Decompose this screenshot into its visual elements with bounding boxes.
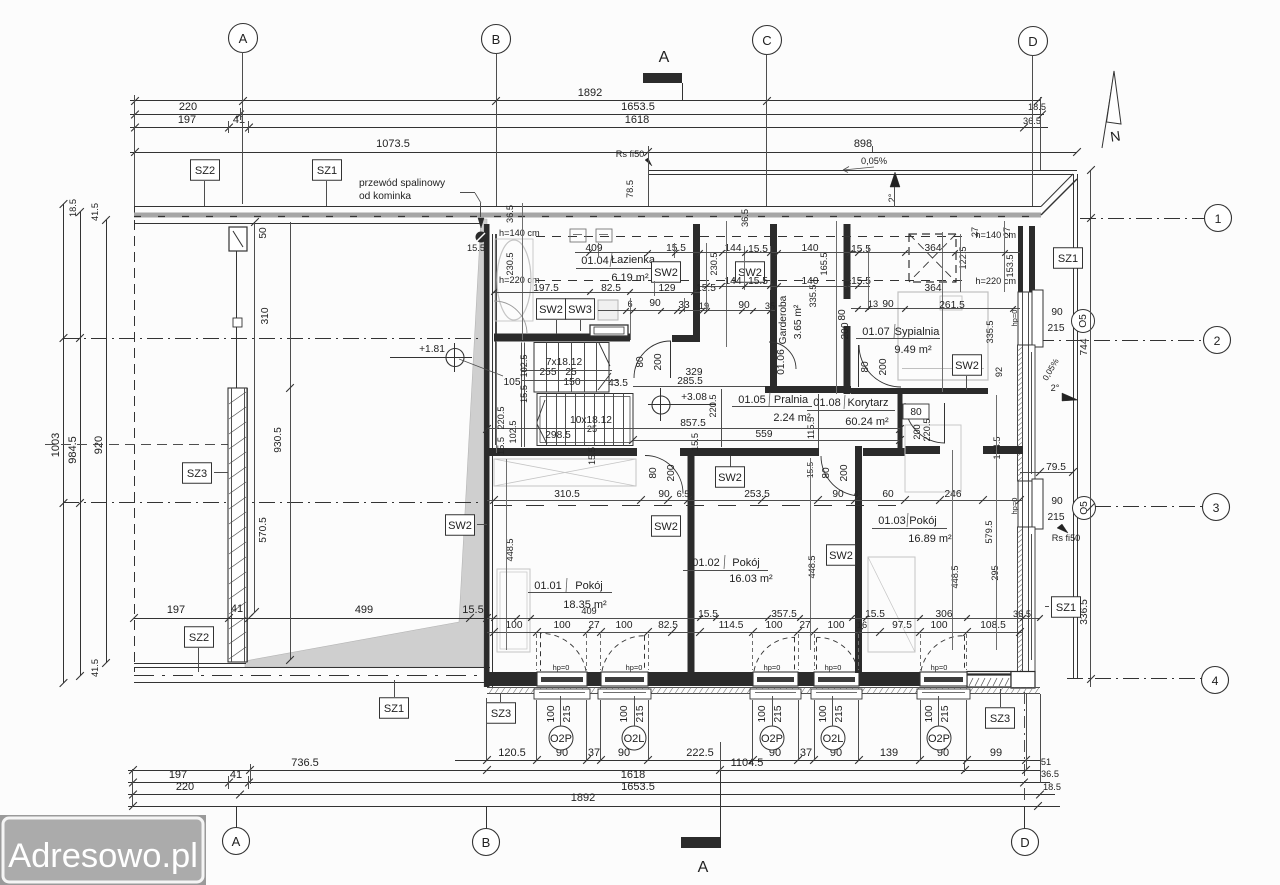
svg-text:27: 27	[588, 620, 600, 631]
svg-text:16: 16	[857, 620, 867, 630]
svg-text:O5: O5	[1078, 314, 1089, 328]
axis circle 4	[1202, 667, 1229, 694]
SW2 box sypialnia	[953, 355, 982, 376]
window jamb verticals	[536, 634, 538, 670]
svg-text:930.5: 930.5	[273, 427, 284, 453]
svg-text:80: 80	[635, 356, 646, 368]
wing mid dashed line	[45, 444, 230, 446]
svg-text:3: 3	[1213, 501, 1220, 515]
svg-text:16.89 m²: 16.89 m²	[908, 533, 952, 545]
SW2 box bathroom bottom	[537, 299, 566, 320]
svg-text:80: 80	[860, 361, 871, 373]
extension lines top band verticals	[522, 203, 524, 340]
svg-text:O2L: O2L	[823, 733, 844, 745]
dim line row1 top band	[575, 252, 1020, 254]
svg-text:+3.08: +3.08	[681, 392, 707, 403]
svg-text:Rs fi50: Rs fi50	[1052, 533, 1081, 543]
right wall window O5 upper	[1018, 292, 1035, 345]
svg-text:A: A	[232, 834, 241, 849]
svg-text:SW2: SW2	[829, 550, 853, 562]
top dimension line 220 1653.5	[130, 114, 1044, 116]
svg-text:102.5: 102.5	[519, 355, 529, 378]
svg-text:90: 90	[1051, 307, 1063, 318]
svg-text:01.04: 01.04	[581, 255, 609, 267]
svg-text:41: 41	[233, 114, 245, 126]
svg-text:200: 200	[840, 322, 851, 339]
svg-text:255: 255	[540, 367, 557, 378]
svg-text:736.5: 736.5	[291, 757, 319, 769]
svg-text:60.24 m²: 60.24 m²	[845, 416, 889, 428]
svg-text:15.5: 15.5	[748, 276, 768, 287]
bathroom sink glyphs	[570, 229, 586, 242]
left wing top band	[134, 206, 1041, 208]
svg-text:108.5: 108.5	[980, 620, 1006, 631]
svg-text:220: 220	[179, 101, 197, 113]
svg-text:01.02: 01.02	[692, 557, 720, 569]
bathroom bathtub	[497, 240, 531, 320]
dim 220.5 by korytarz	[721, 389, 723, 447]
svg-text:Pokój: Pokój	[732, 557, 760, 569]
SZ1 box right mid	[1052, 597, 1081, 618]
svg-text:hp=0: hp=0	[626, 663, 643, 672]
svg-text:335.5: 335.5	[808, 285, 818, 308]
svg-text:1618: 1618	[625, 114, 649, 126]
O5 circle right lower	[1073, 497, 1096, 520]
svg-text:SZ1: SZ1	[317, 165, 337, 177]
svg-text:100: 100	[757, 705, 768, 722]
svg-text:570.5: 570.5	[258, 517, 269, 543]
svg-text:857.5: 857.5	[680, 418, 706, 429]
dashed window swing arcs	[540, 633, 586, 671]
svg-text:27: 27	[970, 227, 980, 237]
axis circle 3	[1203, 494, 1230, 521]
svg-text:2°: 2°	[1051, 383, 1060, 393]
svg-text:01.03: 01.03	[878, 515, 906, 527]
svg-text:01.05: 01.05	[738, 394, 766, 406]
svg-text:200: 200	[878, 358, 889, 375]
svg-text:144: 144	[725, 276, 742, 287]
svg-text:3.65 m²: 3.65 m²	[793, 304, 804, 339]
dim line y618 bottom rooms	[487, 618, 1040, 620]
SW2 box corridor	[716, 467, 745, 488]
dim line row2 top band	[494, 292, 700, 294]
svg-text:SW3: SW3	[568, 304, 592, 316]
svg-text:215: 215	[562, 705, 573, 722]
svg-text:499: 499	[355, 604, 373, 616]
garderoba left wall	[770, 224, 777, 390]
flue circle	[476, 232, 487, 243]
gray roof wedge left of building wall	[245, 219, 487, 667]
svg-text:43.5: 43.5	[608, 378, 628, 389]
right wall window O5 lower	[1018, 481, 1035, 527]
svg-text:295: 295	[990, 565, 1000, 580]
svg-text:1104.5: 1104.5	[731, 757, 764, 769]
svg-text:79.5: 79.5	[1046, 462, 1066, 473]
dim row 329 285.5	[633, 386, 765, 388]
top SZ2 box	[191, 160, 220, 181]
svg-text:230.5: 230.5	[709, 253, 719, 276]
svg-text:01.08: 01.08	[813, 397, 841, 409]
svg-text:220: 220	[176, 781, 194, 793]
svg-text:744: 744	[1079, 338, 1090, 355]
building right wall upper solid	[1018, 226, 1023, 292]
svg-text:90: 90	[649, 298, 661, 309]
SZ1 box wing bottom	[380, 698, 409, 719]
bottom wall corner block	[1011, 672, 1035, 689]
svg-text:1618: 1618	[621, 769, 645, 781]
svg-text:448.5: 448.5	[950, 566, 960, 589]
svg-text:261.5: 261.5	[939, 300, 965, 311]
SW2 box room 01.01 left	[446, 515, 475, 536]
svg-text:100: 100	[931, 620, 948, 631]
svg-text:2: 2	[1214, 334, 1221, 348]
wing wall thin middle	[236, 251, 238, 388]
svg-text:6.5: 6.5	[677, 489, 690, 499]
svg-text:215: 215	[635, 705, 646, 722]
svg-text:Garderoba: Garderoba	[778, 295, 789, 344]
svg-text:78.5: 78.5	[625, 180, 635, 198]
svg-text:197: 197	[178, 114, 196, 126]
svg-text:35: 35	[765, 301, 775, 311]
room 01.01 crossed box	[494, 459, 636, 486]
svg-text:Pokój: Pokój	[575, 580, 603, 592]
left dimension line 1003	[63, 204, 65, 683]
door arc sypialnia	[859, 345, 901, 387]
svg-text:36.5: 36.5	[505, 205, 515, 223]
garderoba right wall	[844, 224, 851, 299]
svg-text:hp=0: hp=0	[931, 663, 948, 672]
svg-text:Korytarz: Korytarz	[848, 397, 889, 409]
room 01.01/01.02 divider wall	[688, 453, 695, 673]
svg-text:984.5: 984.5	[67, 436, 79, 464]
svg-text:41.5: 41.5	[90, 203, 100, 221]
svg-text:579.5: 579.5	[984, 521, 994, 544]
svg-text:27: 27	[1002, 227, 1012, 237]
dim line 115.5 pralnia	[818, 394, 820, 448]
bottom windows O2	[537, 672, 587, 686]
svg-text:559: 559	[756, 429, 773, 440]
svg-text:220.5: 220.5	[708, 395, 718, 418]
svg-text:90: 90	[658, 489, 670, 500]
axis circle C top	[753, 26, 782, 55]
svg-text:37: 37	[588, 747, 600, 759]
axis extension lines vertical top	[134, 95, 136, 206]
svg-text:60: 60	[882, 489, 894, 500]
door arc corridor right	[905, 403, 945, 443]
bottom wall pier 99	[967, 672, 1011, 688]
garderoba and pralnia bottom walls	[765, 386, 851, 393]
svg-text:Adresowo.pl: Adresowo.pl	[8, 837, 198, 875]
svg-text:122.5: 122.5	[958, 247, 968, 270]
wing wall SZ3 hatched	[228, 388, 247, 662]
svg-text:80: 80	[648, 467, 659, 479]
svg-text:37: 37	[800, 747, 812, 759]
svg-text:1892: 1892	[571, 792, 595, 804]
svg-text:1073.5: 1073.5	[376, 138, 410, 150]
SW3 box bathroom bottom	[566, 299, 595, 320]
building top-right chamfer corner	[1041, 174, 1073, 207]
svg-text:215: 215	[940, 705, 951, 722]
axis circle 1	[1205, 205, 1232, 232]
door arc room 01.02	[821, 456, 861, 496]
bathroom right wall	[693, 224, 700, 341]
svg-text:Sypialnia: Sypialnia	[895, 326, 941, 338]
svg-text:200: 200	[653, 353, 664, 370]
dim row y627 and line	[487, 632, 1023, 634]
svg-text:przewód spalinowy: przewód spalinowy	[359, 178, 446, 189]
svg-text:15.5: 15.5	[748, 244, 768, 255]
svg-text:B: B	[482, 835, 491, 850]
svg-text:SZ3: SZ3	[491, 708, 511, 720]
axis circle A bottom	[223, 828, 250, 855]
axis circle A top	[229, 24, 258, 53]
svg-text:200: 200	[912, 424, 922, 439]
svg-text:C: C	[762, 33, 771, 48]
svg-text:409: 409	[581, 606, 596, 616]
bathroom radiator	[590, 325, 628, 336]
svg-text:102.5: 102.5	[508, 421, 518, 444]
svg-text:100: 100	[766, 620, 783, 631]
svg-text:SZ3: SZ3	[990, 713, 1010, 725]
building left wall	[484, 224, 486, 687]
svg-text:1653.5: 1653.5	[621, 101, 655, 113]
svg-text:220.5: 220.5	[922, 419, 932, 442]
dim line row3 top band	[598, 310, 775, 312]
svg-text:100: 100	[506, 620, 523, 631]
svg-text:O2P: O2P	[928, 733, 950, 745]
svg-text:120.5: 120.5	[498, 747, 526, 759]
svg-text:hp=0: hp=0	[764, 663, 781, 672]
level mark +3.08	[652, 396, 670, 414]
bottom dimension line 1892	[128, 806, 1060, 808]
svg-text:18.5: 18.5	[1043, 782, 1061, 792]
svg-text:1653.5: 1653.5	[621, 781, 655, 793]
SW2 box bathroom top	[652, 262, 681, 283]
svg-text:97.5: 97.5	[892, 620, 912, 631]
svg-text:A: A	[659, 49, 670, 66]
room dim vertical lines	[506, 459, 508, 650]
svg-text:15.5: 15.5	[587, 447, 597, 465]
axis circle B bottom	[473, 829, 500, 856]
svg-text:SW2: SW2	[654, 521, 678, 533]
svg-text:1892: 1892	[578, 87, 602, 99]
svg-text:215: 215	[1048, 323, 1065, 334]
svg-text:215: 215	[773, 705, 784, 722]
left dimension line 984.5	[80, 212, 82, 676]
svg-text:+1.81: +1.81	[419, 344, 445, 355]
corridor vertical stub wall	[898, 391, 903, 448]
svg-text:100: 100	[619, 705, 630, 722]
svg-text:41.5: 41.5	[90, 659, 100, 677]
left wing bottom band	[134, 663, 246, 665]
svg-text:hp=0: hp=0	[553, 663, 570, 672]
svg-text:41: 41	[230, 769, 242, 781]
top dimension line 1892	[130, 100, 1040, 102]
svg-text:SZ1: SZ1	[1058, 253, 1078, 265]
svg-text:O2L: O2L	[624, 733, 645, 745]
svg-text:99: 99	[990, 747, 1002, 759]
wing wall thin double line right	[244, 388, 246, 662]
right wall middle leaf hatched	[1018, 345, 1023, 481]
svg-text:18.5: 18.5	[68, 199, 78, 217]
svg-text:15.5: 15.5	[496, 437, 506, 455]
svg-text:SW2: SW2	[539, 304, 563, 316]
svg-text:O5: O5	[1079, 501, 1090, 515]
svg-text:SW2: SW2	[955, 360, 979, 372]
axis circle D top	[1019, 27, 1048, 56]
svg-text:90: 90	[832, 489, 844, 500]
svg-text:80: 80	[821, 467, 832, 479]
door arc room 01.01	[645, 456, 683, 494]
svg-text:92: 92	[994, 367, 1004, 377]
svg-text:2°: 2°	[887, 193, 897, 202]
sypialnia dim verticals	[942, 232, 944, 392]
svg-text:285.5: 285.5	[677, 376, 703, 387]
svg-text:15.5: 15.5	[462, 604, 483, 616]
svg-text:100: 100	[546, 705, 557, 722]
wing dimension 197 41 499 15.5 row	[134, 618, 487, 620]
svg-text:100: 100	[924, 705, 935, 722]
SZ1 box right top	[1054, 248, 1083, 269]
roof overhang right verticals	[1073, 174, 1075, 678]
window sill hatch band bottom	[487, 687, 1040, 689]
extension lines bottom verticals	[486, 698, 488, 760]
building bottom wall with windows	[487, 672, 537, 686]
svg-text:90: 90	[1051, 496, 1063, 507]
svg-text:hp=0: hp=0	[825, 663, 842, 672]
top SZ1 box	[313, 160, 342, 181]
svg-text:335.5: 335.5	[985, 321, 995, 344]
SW2 box room 01.02	[652, 516, 681, 537]
svg-text:153.5: 153.5	[1005, 255, 1015, 278]
svg-text:od kominka: od kominka	[359, 191, 411, 202]
stairs lower flight 10x18.12	[537, 394, 633, 446]
svg-text:4: 4	[853, 489, 858, 499]
svg-text:SZ1: SZ1	[384, 703, 404, 715]
room 01.02/01.03 divider wall	[855, 446, 862, 673]
svg-text:01.07: 01.07	[862, 326, 890, 338]
top dimension line 197 41 1618	[130, 127, 1048, 129]
main dim row y500	[487, 500, 1023, 502]
svg-text:15.5: 15.5	[690, 433, 700, 451]
svg-text:36.5: 36.5	[1041, 769, 1059, 779]
svg-text:SZ2: SZ2	[195, 165, 215, 177]
svg-text:15.5: 15.5	[467, 243, 485, 253]
svg-text:448.5: 448.5	[807, 556, 817, 579]
svg-text:SZ3: SZ3	[187, 468, 207, 480]
svg-text:O2P: O2P	[550, 733, 572, 745]
right wall lower leaf hatched	[1018, 527, 1023, 672]
dim row 559	[633, 440, 900, 442]
north arrow	[1102, 73, 1114, 148]
svg-text:B: B	[492, 32, 501, 47]
svg-text:D: D	[1020, 835, 1029, 850]
left dimension line 920	[106, 220, 108, 663]
svg-text:36.5: 36.5	[740, 209, 750, 227]
svg-text:2.24 m²: 2.24 m²	[773, 412, 811, 424]
section marker A bottom	[681, 837, 721, 848]
svg-text:80: 80	[837, 309, 848, 321]
svg-text:1: 1	[1215, 212, 1222, 226]
svg-text:0,05%: 0,05%	[861, 156, 887, 166]
bottom dimension window row	[455, 760, 1040, 762]
top dimension line 1073.5 and 898	[130, 152, 1077, 154]
svg-text:246: 246	[945, 489, 962, 500]
svg-text:150: 150	[564, 377, 581, 388]
room 01.03 bed light	[905, 425, 961, 492]
level mark +1.81	[446, 349, 464, 367]
svg-text:hp=0: hp=0	[1010, 498, 1019, 515]
svg-text:01.06: 01.06	[776, 349, 787, 375]
svg-text:9.49 m²: 9.49 m²	[894, 344, 932, 356]
SW2 box room 01.03	[827, 545, 856, 566]
svg-text:310: 310	[260, 307, 271, 324]
SZ3 box left	[183, 463, 212, 484]
svg-text:50: 50	[258, 227, 269, 239]
svg-text:36.5: 36.5	[1013, 609, 1031, 619]
svg-text:100: 100	[828, 620, 845, 631]
svg-text:01.01: 01.01	[534, 580, 562, 592]
svg-text:80: 80	[910, 407, 922, 418]
svg-text:Pokój: Pokój	[909, 515, 937, 527]
svg-text:139: 139	[880, 747, 898, 759]
SW2 box hall top	[736, 262, 765, 283]
bottom dimension line 220 1653.5	[128, 794, 1055, 796]
svg-text:336.5: 336.5	[1079, 599, 1090, 625]
svg-text:SZ1: SZ1	[1056, 602, 1076, 614]
svg-text:Łazienka: Łazienka	[611, 254, 656, 266]
section marker A top	[643, 73, 682, 83]
svg-text:SW2: SW2	[718, 472, 742, 484]
sypialnia bed light	[898, 292, 988, 380]
O5 circle right upper	[1072, 310, 1095, 333]
axis circle B top	[482, 25, 511, 54]
svg-text:27: 27	[799, 620, 811, 631]
bathroom bottom wall	[494, 334, 630, 342]
left wing dashed boundary	[134, 204, 136, 672]
sypialnia bottom wall	[851, 388, 988, 394]
stairs landing strip left	[521, 343, 523, 448]
SZ3 box bottom right	[986, 708, 1015, 729]
svg-text:200: 200	[666, 464, 677, 481]
svg-text:100: 100	[616, 620, 633, 631]
svg-text:197: 197	[167, 604, 185, 616]
svg-text:D: D	[1028, 34, 1037, 49]
svg-text:SW2: SW2	[448, 520, 472, 532]
SZ3 box bottom left	[487, 703, 516, 724]
svg-text:215: 215	[834, 705, 845, 722]
bottom dimension line 736.5 1104.5	[128, 770, 1040, 772]
bathroom washbasin	[598, 300, 618, 320]
svg-text:SW2: SW2	[654, 267, 678, 279]
left stack crossing ticks	[60, 334, 68, 342]
svg-text:100: 100	[818, 705, 829, 722]
svg-text:100: 100	[554, 620, 571, 631]
svg-text:15.5: 15.5	[519, 385, 529, 403]
door arc garderoba	[769, 342, 796, 369]
svg-text:4: 4	[1212, 674, 1219, 688]
room 01.01 wardrobe	[497, 569, 530, 652]
svg-text:18.5: 18.5	[1028, 102, 1046, 112]
SZ2 box left	[185, 627, 214, 648]
svg-text:222.5: 222.5	[686, 747, 714, 759]
svg-text:41: 41	[231, 603, 243, 615]
svg-text:Rs fi50: Rs fi50	[616, 149, 645, 159]
svg-text:hp=0: hp=0	[1010, 310, 1019, 327]
svg-text:253.5: 253.5	[744, 489, 770, 500]
svg-text:230.5: 230.5	[505, 253, 515, 276]
Adresowo.pl logo	[0, 815, 206, 885]
